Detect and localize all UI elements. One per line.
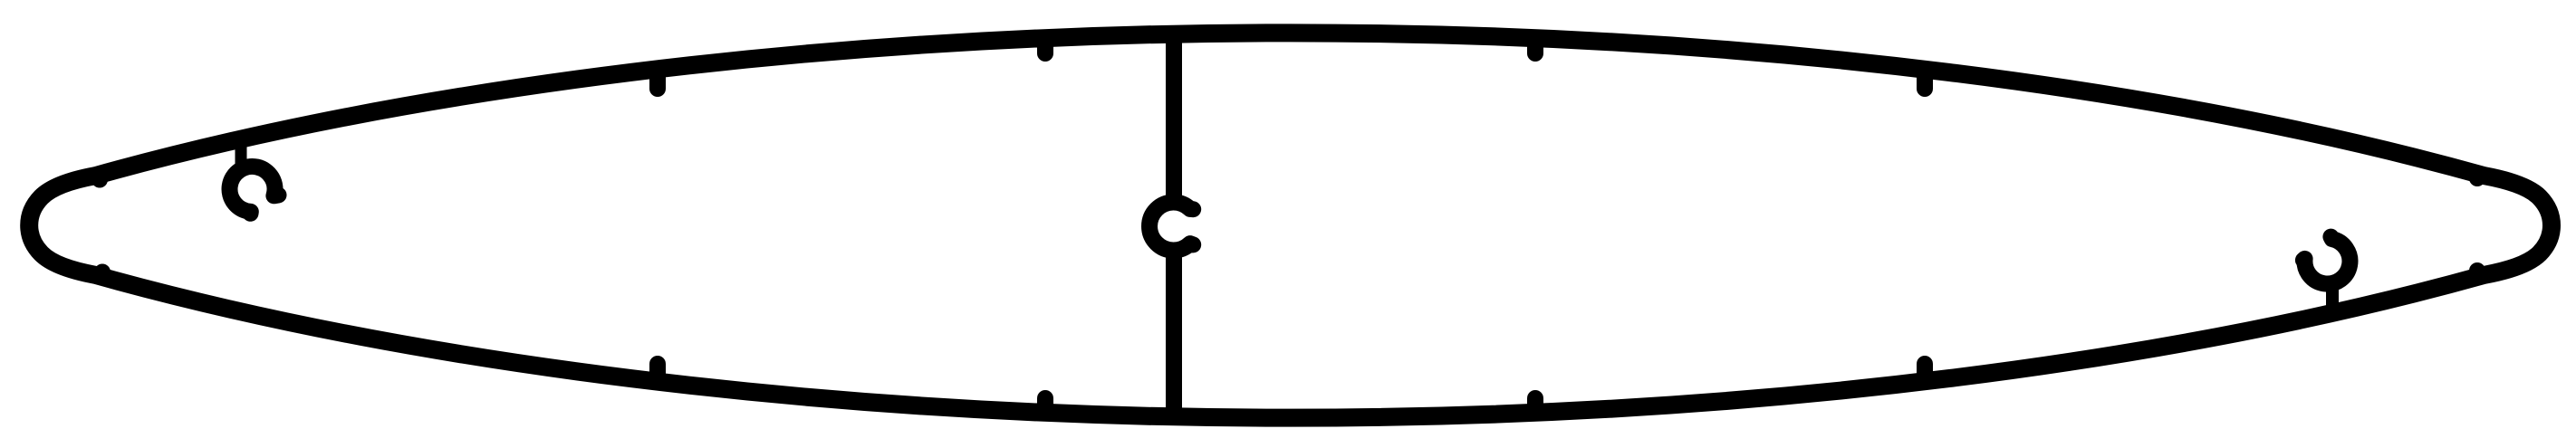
cap bump left bottom [94, 272, 111, 277]
cap bump right top [2469, 174, 2485, 178]
tick bottom 2 [1037, 398, 1053, 411]
cap bump right bottom [2469, 271, 2485, 277]
center bar bottom segment [1166, 248, 1182, 415]
tick bottom 3 [1527, 398, 1543, 411]
tick top 1 [649, 71, 666, 89]
cap bump left top [91, 175, 108, 180]
tick bottom 1 [649, 364, 666, 380]
tick top 4 [1917, 71, 1933, 89]
tick bottom 4 [1917, 364, 1933, 380]
center bar top segment [1166, 36, 1182, 205]
right C stub [2326, 281, 2339, 313]
tick top 2 [1037, 38, 1053, 53]
left C hook [230, 167, 279, 214]
left C stub [235, 138, 247, 169]
right C hook [2303, 237, 2350, 284]
center C hook [1149, 202, 1193, 250]
tick top 3 [1527, 38, 1543, 53]
